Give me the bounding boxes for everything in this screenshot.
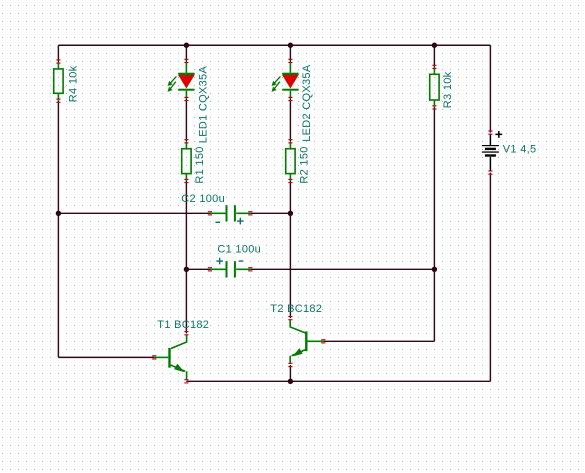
svg-text:V1 4,5: V1 4,5 — [503, 144, 537, 156]
svg-text:R3 10k: R3 10k — [442, 71, 454, 108]
svg-text:R1 150: R1 150 — [194, 146, 206, 183]
svg-text:C2 100u: C2 100u — [181, 193, 225, 205]
svg-text:C1 100u: C1 100u — [217, 243, 261, 255]
svg-text:LED1 CQX35A: LED1 CQX35A — [198, 66, 210, 144]
svg-text:R2 150: R2 150 — [298, 146, 310, 183]
svg-text:T1 BC182: T1 BC182 — [157, 319, 209, 331]
svg-text:LED2 CQX35A: LED2 CQX35A — [301, 64, 313, 142]
svg-text:R4 10k: R4 10k — [67, 65, 79, 102]
svg-text:T2 BC182: T2 BC182 — [270, 303, 322, 315]
